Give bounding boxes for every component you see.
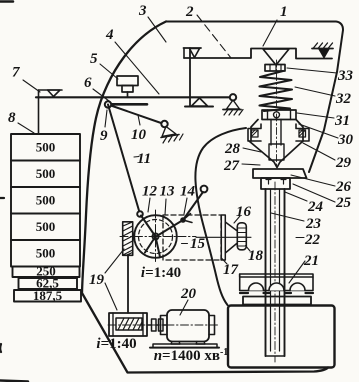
- link 10: [108, 105, 163, 124]
- base box: [228, 306, 335, 368]
- lever 2: [36, 96, 233, 98]
- vertical shaft 19: [127, 256, 129, 314]
- knob 16/18: [237, 223, 246, 250]
- svg-text:9: 9: [100, 128, 108, 144]
- svg-text:10: 10: [131, 127, 147, 143]
- leader lines: [18, 15, 338, 315]
- svg-text:13: 13: [160, 184, 176, 200]
- cone 27: [249, 141, 303, 168]
- plate 6 under lever: [112, 103, 147, 106]
- worm wall hatched (upper worm): [123, 222, 133, 256]
- coupling: [147, 324, 167, 326]
- svg-text:2: 2: [185, 4, 194, 20]
- svg-text:500: 500: [36, 140, 56, 155]
- block 24: [261, 178, 290, 189]
- svg-text:26: 26: [335, 179, 352, 195]
- svg-text:1: 1: [280, 4, 288, 20]
- svg-text:6: 6: [84, 75, 92, 91]
- frame top edge: [166, 22, 343, 173]
- hanger knife edge on lever: [48, 90, 61, 97]
- dashed box 15: [163, 215, 221, 260]
- svg-text:i=1:40: i=1:40: [96, 336, 136, 352]
- svg-text:18: 18: [248, 248, 264, 264]
- spring 32: [260, 71, 293, 111]
- frame throat curve: [195, 128, 246, 305]
- nut 33: [265, 65, 285, 72]
- svg-text:27: 27: [223, 158, 240, 174]
- lever right pin and ground: [230, 94, 236, 100]
- svg-text:22: 22: [304, 232, 321, 248]
- svg-text:11: 11: [137, 151, 151, 167]
- svg-text:4: 4: [105, 27, 114, 43]
- svg-text:i=1:40: i=1:40: [141, 265, 181, 281]
- svg-text:24: 24: [307, 199, 324, 215]
- bell crank 14 and pivot on frame: [201, 186, 208, 193]
- svg-text:500: 500: [36, 166, 56, 181]
- fulcrum plate and knife: [185, 106, 213, 108]
- svg-text:3: 3: [138, 3, 147, 19]
- ground under link 10: [162, 127, 176, 137]
- svg-text:17: 17: [223, 262, 239, 278]
- svg-text:28: 28: [224, 141, 241, 157]
- worm gearbox bottom: [109, 313, 147, 336]
- dashpot 5: [117, 76, 138, 86]
- weight stack rod 7: [38, 90, 40, 134]
- scan artifacts: [0, 0, 13, 3]
- svg-text:29: 29: [335, 155, 352, 171]
- cam follower 17 disc: [221, 215, 225, 260]
- lever support bracket: [184, 47, 202, 49]
- svg-text:7: 7: [12, 65, 20, 81]
- svg-text:n=1400 хв-1: n=1400 хв-1: [154, 347, 229, 365]
- svg-text:31: 31: [334, 113, 350, 129]
- svg-text:16: 16: [236, 204, 252, 220]
- svg-text:33: 33: [337, 68, 354, 84]
- svg-text:21: 21: [303, 253, 319, 269]
- svg-text:12: 12: [142, 184, 158, 200]
- screw 22/23: [266, 189, 285, 356]
- rod 11: [108, 105, 140, 215]
- bushing 31: [262, 110, 296, 120]
- svg-text:20: 20: [180, 286, 197, 302]
- spring hanger triangle: [263, 49, 289, 65]
- svg-text:187,5: 187,5: [33, 288, 63, 303]
- rocker support top right: [312, 48, 333, 50]
- svg-text:30: 30: [337, 132, 354, 148]
- table 25: [253, 169, 307, 178]
- svg-text:15: 15: [190, 236, 206, 252]
- svg-text:500: 500: [36, 219, 56, 234]
- lugs 29: [248, 124, 309, 141]
- svg-text:32: 32: [335, 91, 352, 107]
- svg-text:19: 19: [89, 272, 105, 288]
- crank pin 13: [137, 211, 143, 217]
- svg-text:23: 23: [305, 216, 322, 232]
- svg-text:14: 14: [180, 184, 196, 200]
- svg-text:500: 500: [36, 246, 56, 261]
- motor 20: [167, 310, 209, 342]
- svg-text:500: 500: [36, 193, 56, 208]
- svg-text:5: 5: [90, 51, 98, 67]
- plate under handwheel: [243, 297, 311, 305]
- collar flare: [251, 120, 303, 142]
- frame hanger line: [184, 49, 332, 59]
- svg-text:8: 8: [8, 110, 16, 126]
- handwheel 21: [240, 274, 313, 277]
- frame body outline left arc and bottom: [82, 22, 328, 373]
- weight stack 8: [11, 134, 81, 302]
- svg-text:25: 25: [335, 195, 352, 211]
- worm wheel 12: [134, 215, 177, 258]
